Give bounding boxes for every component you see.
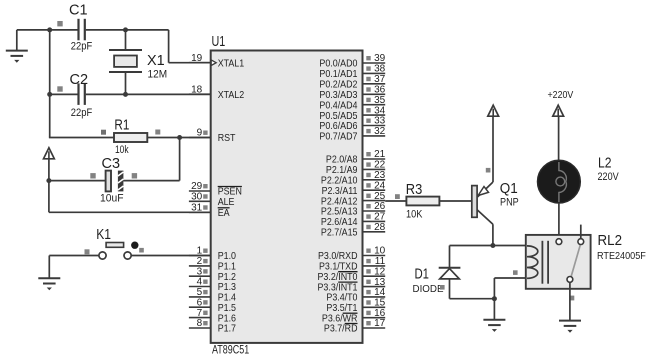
pin 30 ALE bbox=[189, 192, 235, 209]
pin 10 P3.0/RXD bbox=[318, 246, 386, 263]
wire-handle square C1 bbox=[57, 21, 62, 26]
wire lamp to relay contact bbox=[558, 203, 560, 239]
svg-text:U1: U1 bbox=[212, 33, 226, 50]
svg-text:RTE24005F: RTE24005F bbox=[597, 251, 646, 262]
pin 36 P0.3/AD3 bbox=[319, 85, 385, 102]
pin 33 P0.6/AD6 bbox=[319, 116, 385, 133]
op-amp U1 microcontroller AT89C51 body bbox=[211, 51, 363, 343]
svg-text:27: 27 bbox=[374, 212, 386, 223]
wire collector down bbox=[492, 224, 494, 246]
pin 22 P2.1/A9 bbox=[326, 160, 386, 177]
pin 7 P1.6 bbox=[189, 308, 236, 325]
svg-text:X1: X1 bbox=[147, 52, 165, 69]
power arrow +220V bbox=[553, 105, 564, 116]
svg-text:P2.3/A11: P2.3/A11 bbox=[322, 186, 358, 197]
svg-text:P2.1/A9: P2.1/A9 bbox=[326, 165, 358, 176]
wire-handle square R1 left bbox=[101, 130, 106, 135]
wire arrow to C3 node bbox=[48, 159, 50, 181]
lamp L2 bbox=[538, 160, 581, 203]
pin 27 P2.6/A14 bbox=[321, 212, 386, 229]
svg-text:P3.2/INT0: P3.2/INT0 bbox=[318, 272, 358, 283]
svg-text:P3.4/T0: P3.4/T0 bbox=[326, 293, 357, 304]
svg-text:P0.2/AD2: P0.2/AD2 bbox=[319, 80, 357, 91]
wire gnd to node A bbox=[17, 29, 50, 31]
svg-text:P0.0/AD0: P0.0/AD0 bbox=[319, 59, 357, 70]
crystal X1 bbox=[109, 30, 142, 95]
node junction RST bbox=[177, 135, 182, 140]
svg-text:33: 33 bbox=[374, 116, 386, 127]
svg-text:9: 9 bbox=[197, 128, 203, 139]
wire-handle square Q1 bbox=[486, 168, 491, 173]
capacitor C3 bbox=[49, 171, 124, 192]
pin 14 P3.4/T0 bbox=[326, 287, 385, 304]
svg-text:XTAL1: XTAL1 bbox=[218, 58, 245, 69]
pin 3 P1.2 bbox=[189, 266, 236, 283]
wire rail C1-C2 bbox=[49, 29, 51, 94]
pin 32 P0.7/AD7 bbox=[319, 126, 385, 143]
pin 24 P2.3/A11 bbox=[322, 180, 386, 197]
wire-handle square K1 left bbox=[85, 249, 90, 254]
svg-text:P3.7/RD: P3.7/RD bbox=[324, 324, 358, 335]
wire-handle square R3 bbox=[395, 194, 400, 199]
svg-text:19: 19 bbox=[191, 53, 203, 64]
svg-text:26: 26 bbox=[374, 201, 386, 212]
svg-text:RL2: RL2 bbox=[598, 232, 623, 249]
svg-text:RST: RST bbox=[218, 133, 236, 144]
svg-text:C3: C3 bbox=[102, 155, 121, 172]
pin 29 PSEN bbox=[189, 181, 242, 198]
pin 8 P1.7 bbox=[189, 318, 236, 335]
svg-text:31: 31 bbox=[191, 203, 203, 214]
svg-text:24: 24 bbox=[374, 180, 386, 191]
wire rail C2-R1 bbox=[49, 94, 51, 137]
svg-text:28: 28 bbox=[374, 222, 386, 233]
svg-text:PNP: PNP bbox=[500, 197, 519, 209]
wire rail to R1 left bbox=[49, 137, 114, 139]
svg-text:1: 1 bbox=[197, 246, 203, 257]
svg-text:14: 14 bbox=[374, 287, 386, 298]
pin 26 P2.5/A13 bbox=[321, 201, 386, 218]
pin 9 RST bbox=[189, 128, 236, 145]
svg-text:18: 18 bbox=[191, 84, 203, 95]
ground D1 bbox=[483, 320, 505, 332]
svg-text:7: 7 bbox=[197, 308, 203, 319]
svg-text:P0.4/AD4: P0.4/AD4 bbox=[319, 100, 357, 111]
svg-text:P3.5/T1: P3.5/T1 bbox=[326, 303, 357, 314]
svg-text:P3.0/RXD: P3.0/RXD bbox=[318, 251, 358, 262]
power arrow VCC-Q1 bbox=[488, 105, 499, 116]
svg-text:D1: D1 bbox=[415, 266, 430, 283]
pin 5 P1.4 bbox=[189, 287, 236, 304]
svg-text:10K: 10K bbox=[406, 209, 423, 221]
wire-handle square C3 left bbox=[90, 173, 95, 178]
wire-handle square K1 right bbox=[139, 248, 144, 253]
ground K1 bbox=[38, 278, 60, 290]
svg-text:P0.5/AD5: P0.5/AD5 bbox=[319, 111, 357, 122]
svg-text:P2.6/A14: P2.6/A14 bbox=[321, 217, 358, 228]
wire K1 to P1.0 bbox=[131, 255, 211, 257]
svg-text:R3: R3 bbox=[406, 181, 423, 198]
ground relay bbox=[559, 321, 581, 333]
svg-text:32: 32 bbox=[374, 126, 386, 137]
relay RL2 bbox=[526, 235, 591, 289]
svg-text:Q1: Q1 bbox=[500, 180, 518, 197]
svg-text:AT89C51: AT89C51 bbox=[212, 342, 249, 355]
svg-text:15: 15 bbox=[374, 298, 386, 309]
svg-text:23: 23 bbox=[374, 170, 386, 181]
svg-text:P2.0/A8: P2.0/A8 bbox=[326, 155, 358, 166]
svg-text:P0.7/AD7: P0.7/AD7 bbox=[319, 132, 357, 143]
capacitor C1 bbox=[50, 19, 126, 41]
switch K1 bbox=[99, 242, 139, 260]
svg-text:P1.6: P1.6 bbox=[218, 313, 236, 324]
wire-handle square RL2 bottom bbox=[570, 296, 575, 301]
pin 1 P1.0 bbox=[189, 246, 236, 263]
pin 6 P1.5 bbox=[189, 297, 236, 314]
wire-handle square C2 bbox=[57, 86, 62, 91]
wire RST to C3 bbox=[179, 138, 181, 181]
wire C3 node to EA bbox=[48, 181, 50, 213]
wire relay NO contact stub bbox=[580, 225, 582, 239]
svg-text:35: 35 bbox=[374, 95, 386, 106]
wire collector node to relay coil top bbox=[450, 245, 526, 247]
pin 4 P1.3 bbox=[189, 277, 236, 294]
pin 38 P0.1/AD1 bbox=[319, 64, 385, 81]
pin 17 P3.7/RD bbox=[324, 318, 386, 335]
svg-text:38: 38 bbox=[374, 64, 386, 75]
pin 18 XTAL2 bbox=[189, 84, 244, 101]
svg-text:P2.4/A12: P2.4/A12 bbox=[321, 196, 358, 207]
node A junction C1 bbox=[47, 27, 52, 32]
svg-text:+220V: +220V bbox=[548, 89, 574, 101]
svg-text:39: 39 bbox=[374, 53, 386, 64]
svg-text:P1.7: P1.7 bbox=[218, 324, 236, 335]
wire-handle square R1 right bbox=[155, 130, 160, 135]
wire C1 to XTAL1 corner bbox=[126, 29, 169, 31]
svg-text:220V: 220V bbox=[598, 171, 620, 183]
svg-text:22pF: 22pF bbox=[71, 107, 93, 119]
wire-handle square C3 right bbox=[132, 173, 137, 178]
svg-text:17: 17 bbox=[374, 318, 386, 329]
svg-text:37: 37 bbox=[374, 74, 386, 85]
node junction collector bbox=[490, 243, 495, 248]
pin 15 P3.5/T1 bbox=[326, 298, 385, 315]
svg-text:C2: C2 bbox=[70, 71, 89, 88]
svg-text:P0.1/AD1: P0.1/AD1 bbox=[319, 69, 357, 80]
svg-text:K1: K1 bbox=[96, 226, 111, 243]
svg-text:12: 12 bbox=[374, 266, 386, 277]
svg-text:XTAL2: XTAL2 bbox=[218, 90, 245, 101]
resistor R3 bbox=[406, 197, 471, 206]
wire-handle square RL2 left bbox=[513, 270, 518, 275]
wire coil bottom bbox=[493, 278, 495, 299]
svg-text:10uF: 10uF bbox=[100, 193, 124, 205]
svg-text:P0.6/AD6: P0.6/AD6 bbox=[319, 121, 357, 132]
svg-text:ALE: ALE bbox=[218, 197, 235, 208]
svg-text:30: 30 bbox=[191, 192, 203, 203]
svg-text:36: 36 bbox=[374, 85, 386, 96]
svg-text:R1: R1 bbox=[114, 117, 129, 134]
node junction C3/EA bbox=[46, 178, 51, 183]
svg-text:P1.0: P1.0 bbox=[218, 251, 236, 262]
transistor Q1 bbox=[472, 182, 493, 224]
svg-text:8: 8 bbox=[197, 318, 203, 329]
node junction X1 bottom bbox=[123, 92, 128, 97]
svg-text:P2.5/A13: P2.5/A13 bbox=[321, 207, 358, 218]
svg-text:P0.3/AD3: P0.3/AD3 bbox=[319, 90, 357, 101]
node junction coil bottom bbox=[492, 296, 497, 301]
capacitor C2 bbox=[50, 83, 211, 105]
pin 21 P2.0/A8 bbox=[326, 149, 386, 166]
svg-text:EA: EA bbox=[218, 208, 230, 219]
pin 19 XTAL1 bbox=[189, 53, 244, 70]
svg-text:22pF: 22pF bbox=[71, 41, 93, 53]
svg-text:10k: 10k bbox=[115, 144, 129, 156]
svg-text:P2.7/A15: P2.7/A15 bbox=[321, 228, 358, 239]
svg-text:4: 4 bbox=[197, 277, 203, 288]
ground top-left bbox=[6, 51, 28, 63]
diode D1 bbox=[439, 246, 461, 299]
resistor R1 bbox=[114, 133, 211, 142]
svg-text:25: 25 bbox=[374, 191, 386, 202]
node junction X1 top bbox=[123, 27, 128, 32]
pin 13 P3.3/INT1 bbox=[318, 277, 386, 294]
pin 11 P3.1/TXD bbox=[319, 256, 386, 273]
svg-text:6: 6 bbox=[197, 297, 203, 308]
pin 2 P1.1 bbox=[189, 256, 236, 273]
pin 28 P2.7/A15 bbox=[321, 222, 386, 239]
svg-text:P1.3: P1.3 bbox=[218, 282, 236, 293]
wire pin25 to R3 bbox=[385, 200, 406, 202]
pin 35 P0.4/AD4 bbox=[319, 95, 385, 112]
wire K1 to ground bbox=[49, 255, 99, 257]
svg-text:DIODE: DIODE bbox=[413, 283, 444, 295]
pin 34 P0.5/AD5 bbox=[319, 105, 385, 122]
pin 23 P2.2/A10 bbox=[321, 170, 386, 187]
wire supply to lamp bbox=[558, 116, 560, 161]
svg-text:22: 22 bbox=[374, 160, 386, 171]
svg-text:L2: L2 bbox=[598, 155, 612, 172]
svg-text:34: 34 bbox=[374, 105, 386, 116]
wire emitter to power bbox=[492, 116, 494, 182]
pin 31 EA bbox=[189, 203, 230, 220]
wire gnd stub bbox=[16, 30, 18, 51]
svg-text:P1.5: P1.5 bbox=[218, 303, 236, 314]
pin 39 P0.0/AD0 bbox=[319, 53, 385, 69]
wire node to ground bbox=[493, 299, 495, 320]
svg-text:10: 10 bbox=[374, 246, 386, 257]
wire-handle square D1 bbox=[440, 285, 445, 290]
wire relay pole to ground bbox=[569, 282, 571, 320]
svg-text:P2.2/A10: P2.2/A10 bbox=[321, 176, 358, 187]
svg-text:21: 21 bbox=[374, 149, 386, 160]
pin 12 P3.2/INT0 bbox=[318, 266, 386, 283]
pin 25 P2.4/A12 bbox=[321, 191, 386, 208]
svg-text:C1: C1 bbox=[69, 2, 88, 19]
pin 19 clock marker bbox=[211, 60, 216, 66]
power arrow VCC-left bbox=[44, 148, 55, 159]
svg-text:12M: 12M bbox=[148, 69, 168, 81]
pin 37 P0.2/AD2 bbox=[319, 74, 385, 91]
node B junction C2 bbox=[47, 92, 52, 97]
wire D1 to coil-bottom node bbox=[450, 298, 495, 300]
pin 16 P3.6/WR bbox=[322, 308, 386, 325]
